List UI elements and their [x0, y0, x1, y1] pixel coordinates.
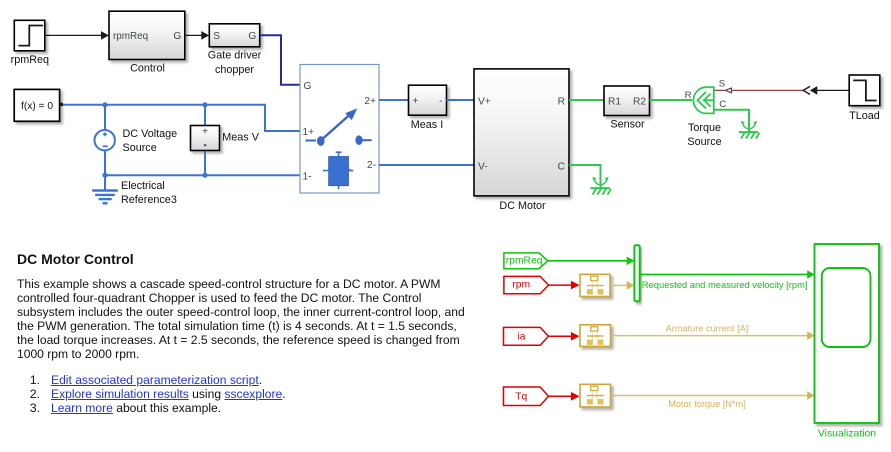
svg-text:chopper: chopper [215, 64, 254, 76]
rate transition block (rpm) [580, 274, 610, 296]
svg-text:G: G [173, 31, 181, 42]
wire gate signal G (navy) [260, 35, 300, 85]
svg-text:DC Motor: DC Motor [499, 200, 546, 212]
svg-text:ia: ia [518, 331, 526, 342]
svg-text:Gate driver: Gate driver [208, 50, 262, 62]
subsystem Sensor [604, 86, 650, 131]
svg-text:R1: R1 [608, 96, 621, 107]
rate transition block (ia) [580, 325, 611, 347]
from tag rpmReq (green) [504, 253, 548, 269]
svg-text:1-: 1- [303, 172, 312, 183]
chopper switch icon [306, 108, 372, 146]
svg-text:Source: Source [123, 142, 157, 154]
wire ia to scope (olive) [611, 324, 815, 340]
svg-text:-: - [439, 96, 442, 107]
ground Electrical Reference3 [92, 175, 177, 206]
from tag rpm (red) [504, 276, 549, 293]
svg-text:G: G [304, 81, 312, 92]
svg-text:Control: Control [130, 63, 165, 75]
solver block f(x)=0 [14, 89, 63, 121]
svg-text:+: + [202, 127, 208, 138]
ground rotational reference (DC Motor C) [591, 177, 612, 195]
svg-text:S: S [719, 79, 725, 90]
svg-text:Torque: Torque [688, 122, 721, 134]
wire DC Motor C to rotational reference [569, 165, 601, 182]
wire rpm tag to rate transition [549, 281, 580, 290]
annotation list [17, 373, 286, 415]
svg-text:Meas I: Meas I [411, 119, 443, 131]
PS line chevron arrow [803, 86, 810, 94]
wire Meas I to DC Motor V+ [447, 99, 475, 101]
from tag Tq (red) [504, 387, 549, 406]
wire chopper 2+ to Meas I [379, 99, 409, 101]
wire top electrical rail [63, 105, 300, 131]
wire bottom electrical rail [105, 174, 300, 176]
svg-text:V-: V- [478, 161, 488, 172]
svg-text:2-: 2- [367, 160, 376, 171]
mux [634, 245, 639, 301]
ground rotational reference (Torque Source) [739, 121, 760, 139]
physical signal port arrow at S [715, 88, 732, 93]
svg-text:f(x) = 0: f(x) = 0 [21, 101, 53, 112]
node top rail at Meas V [202, 102, 207, 107]
svg-text:Reference3: Reference3 [121, 194, 177, 206]
wire rate transition to mux (olive) [610, 281, 634, 290]
rate transition block (Tq) [580, 384, 611, 407]
scope Visualization [815, 244, 880, 440]
step source TLoad [849, 75, 880, 122]
annotation title [17, 251, 134, 267]
svg-text:DC Voltage: DC Voltage [123, 128, 178, 140]
wire DC Motor R to Sensor [569, 99, 604, 101]
svg-text:Meas V: Meas V [222, 132, 259, 144]
subsystem DC Motor [474, 69, 569, 212]
svg-text:R2: R2 [633, 96, 646, 107]
svg-text:Requested and measured velocit: Requested and measured velocity [rpm] [642, 279, 808, 290]
subsystem Control [109, 11, 185, 74]
svg-text:Sensor: Sensor [610, 119, 645, 131]
wire TLoad output (black) [817, 89, 850, 91]
svg-text:rpmReq: rpmReq [506, 255, 543, 266]
node bottom rail at Meas V [202, 173, 207, 178]
wire mux to scope (green) [639, 270, 814, 290]
svg-text:Electrical: Electrical [121, 180, 165, 192]
wire chopper 2- to DC Motor V- [379, 164, 474, 166]
svg-text:V+: V+ [478, 96, 491, 107]
wire Sensor R2 to Torque Source R [650, 99, 693, 101]
svg-text:TLoad: TLoad [849, 110, 880, 122]
voltage sensor Meas V [191, 105, 260, 175]
svg-text:R: R [558, 96, 565, 107]
wire ia tag to rate transition [549, 332, 580, 341]
svg-text:2+: 2+ [364, 96, 376, 107]
svg-text:Visualization: Visualization [818, 429, 876, 440]
svg-text:R: R [685, 90, 692, 101]
Simulink arrowhead into PS converter [810, 86, 818, 95]
svg-text:C: C [558, 161, 565, 172]
from tag ia (red) [504, 327, 549, 345]
svg-text:rpmReq: rpmReq [113, 31, 148, 42]
svg-text:1+: 1+ [303, 127, 315, 138]
svg-text:Source: Source [687, 136, 721, 148]
wire Torque Source C to rotational reference [715, 110, 750, 126]
annotation paragraph [17, 278, 465, 361]
node bottom rail at source [102, 173, 107, 178]
wire Tq tag to rate transition [549, 392, 580, 401]
current sensor Meas I [409, 85, 447, 131]
wire rpmReq tag to mux [548, 257, 635, 266]
chopper IGBT icon [323, 152, 353, 189]
DC Voltage Source [95, 105, 178, 175]
wire Control to Gate driver chopper [185, 31, 209, 40]
node top rail at source [102, 102, 107, 107]
subsystem Gate driver chopper [208, 24, 262, 76]
svg-text:G: G [248, 31, 256, 42]
svg-text:C: C [719, 99, 726, 110]
svg-text:Armature current [A]: Armature current [A] [666, 324, 749, 334]
Torque Source [685, 79, 727, 148]
svg-text:Tq: Tq [515, 392, 527, 403]
step source rpmReq [11, 20, 49, 66]
chopper subsystem box [300, 65, 379, 194]
svg-text:S: S [213, 31, 220, 42]
svg-text:+: + [413, 96, 419, 107]
wire physical signal TLoad to S (dark red) [732, 89, 804, 91]
svg-text:Motor torque [N*m]: Motor torque [N*m] [668, 399, 746, 409]
svg-text:rpmReq: rpmReq [11, 54, 49, 66]
svg-text:rpm: rpm [512, 280, 530, 291]
wire rpmReq to Control [45, 31, 109, 40]
wire Tq to scope (olive) [611, 391, 815, 409]
